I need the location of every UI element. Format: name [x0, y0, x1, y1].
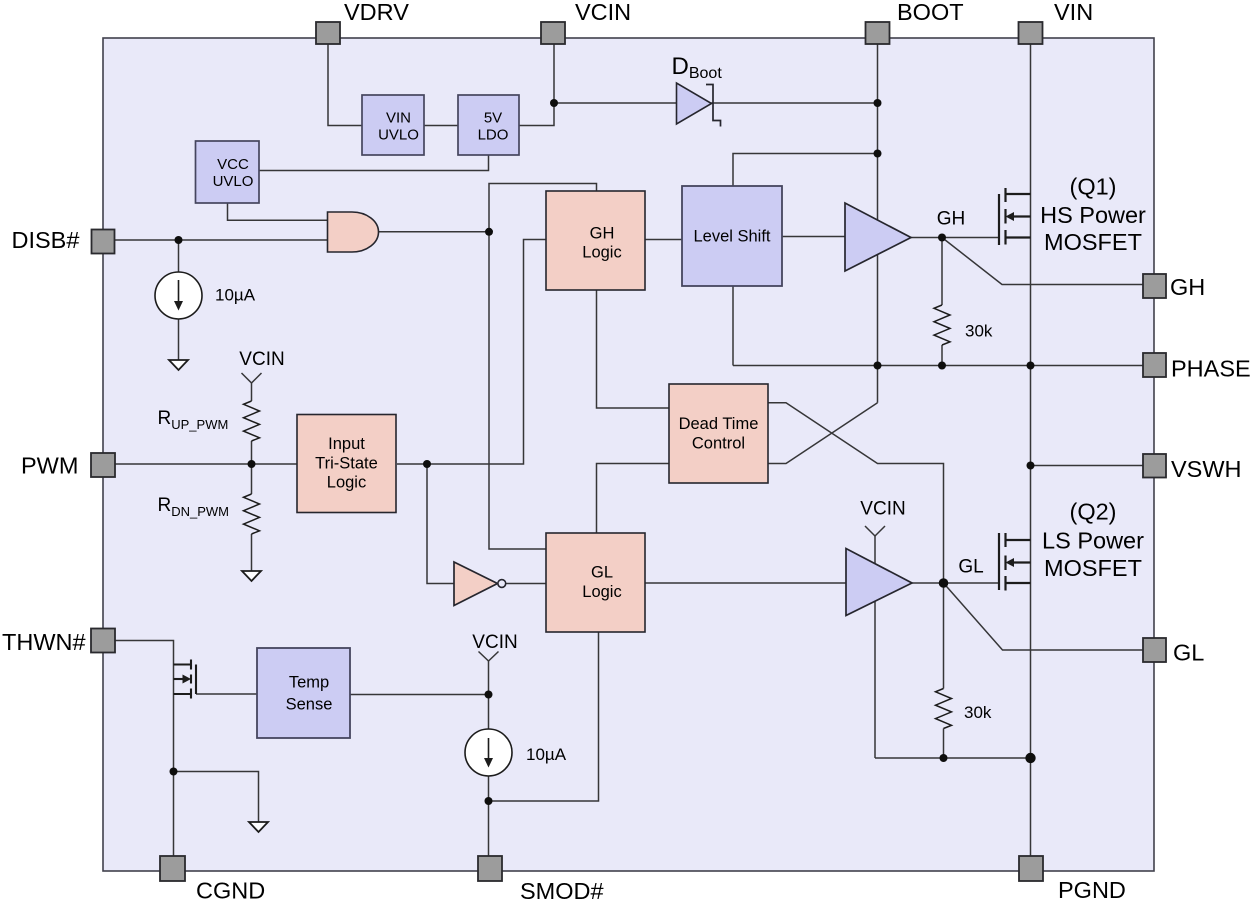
svg-text:UVLO: UVLO	[378, 127, 419, 144]
svg-text:GL: GL	[958, 557, 983, 578]
wire DISB# node to current source and ground	[178, 240, 180, 360]
svg-text:SMOD#: SMOD#	[520, 878, 604, 901]
wire PWM node to R_DN_PWM	[251, 464, 253, 494]
node PHASE-BOOT rail	[874, 362, 882, 370]
wire sense FET node to local ground	[174, 772, 259, 823]
wire BOOT node to Level Shift top	[733, 154, 878, 187]
svg-text:VCIN: VCIN	[239, 349, 284, 370]
wire VCC UVLO to AND gate upper input	[228, 203, 328, 220]
wire AND gate output	[379, 231, 490, 233]
block VCC UVLO	[196, 141, 260, 203]
ground (THWN# sense)	[249, 822, 268, 832]
svg-text:GH: GH	[937, 209, 966, 230]
wire DISB# input line to AND gate lower input	[115, 239, 328, 241]
node THWN# sense	[170, 768, 178, 776]
op-amp GH driver	[845, 203, 911, 271]
svg-text:30k: 30k	[965, 322, 993, 341]
pin DISB#	[92, 230, 115, 254]
wire BOOT rail diagonal to Dead Time Control lower output	[769, 403, 878, 464]
svg-text:30k: 30k	[964, 703, 992, 722]
svg-text:DISB#: DISB#	[12, 227, 80, 253]
node GH	[938, 234, 946, 242]
resistor R_UP_PWM	[244, 401, 260, 441]
svg-text:(Q2): (Q2)	[1070, 499, 1117, 525]
wire GL node to bottom 30k resistor	[943, 583, 945, 689]
wire Dead Time Control lower input to GL Logic top	[597, 464, 670, 534]
wire VSWH line	[1031, 465, 1144, 467]
svg-text:THWN#: THWN#	[2, 629, 86, 655]
svg-text:GH: GH	[590, 225, 615, 243]
block GH Logic	[546, 191, 645, 290]
AND gate (DISB# / VCC UVLO)	[328, 212, 379, 252]
block VIN UVLO	[362, 95, 424, 155]
pin VSWH	[1143, 454, 1166, 478]
svg-text:Level Shift: Level Shift	[693, 228, 770, 246]
pin SMOD#	[478, 856, 502, 881]
pin PHASE	[1143, 353, 1166, 377]
wire GH Logic to Level Shift	[645, 239, 682, 241]
wire Temp Sense output to SMOD# rail	[350, 694, 489, 696]
pin BOOT	[866, 22, 890, 44]
svg-text:10µA: 10µA	[526, 745, 567, 764]
transistor Q1	[999, 188, 1031, 245]
wire PWM node to inverter input	[427, 464, 454, 584]
svg-text:VSWH: VSWH	[1171, 456, 1242, 482]
resistor R_DN_PWM	[244, 494, 260, 534]
pin GL	[1143, 638, 1166, 662]
svg-text:Input: Input	[328, 435, 365, 453]
block Temp Sense	[257, 648, 350, 738]
pin GH	[1143, 274, 1166, 298]
wire VCIN stem to 10uA source and SMOD# pin	[488, 661, 490, 857]
node temp sense VCIN	[485, 691, 493, 699]
wire enable to GL Logic upper input	[489, 232, 546, 549]
wire bottom 30k resistor to bottom rail	[943, 729, 945, 759]
wire 30k resistor to PHASE rail	[941, 345, 943, 366]
node SMOD#	[485, 797, 493, 805]
svg-text:VCIN: VCIN	[575, 0, 631, 25]
wire enable to GH Logic top	[489, 184, 597, 232]
wire GH driver output to Q1 gate	[911, 237, 999, 239]
pin VIN	[1019, 22, 1043, 44]
wire GL driver output to Q2 gate	[912, 582, 999, 584]
wire SMOD# node to GL Logic bottom	[489, 632, 599, 801]
wire PHASE horizontal rail	[733, 365, 1143, 367]
svg-text:VIN: VIN	[386, 110, 411, 127]
svg-text:(Q1): (Q1)	[1070, 174, 1117, 200]
svg-text:VCIN: VCIN	[860, 499, 905, 520]
node PHASE-VIN rail	[1027, 362, 1035, 370]
pin PGND	[1019, 856, 1043, 881]
pin THWN#	[91, 629, 115, 653]
current source 10uA (DISB#)	[155, 272, 202, 319]
ground (R_DN_PWM)	[242, 571, 261, 581]
svg-text:Logic: Logic	[582, 583, 621, 601]
node tri-state output	[423, 460, 431, 468]
node BOOT-LevelShift	[874, 150, 882, 158]
junction node dots	[170, 99, 1036, 805]
svg-text:MOSFET: MOSFET	[1044, 555, 1142, 581]
node DISB#	[175, 236, 183, 244]
wire VCIN stem through GL driver to bottom rail	[874, 536, 876, 758]
svg-text:Temp: Temp	[289, 674, 329, 692]
svg-text:Logic: Logic	[582, 244, 621, 262]
inverter (PWM to GL Logic)	[454, 562, 506, 606]
block 5V LDO	[458, 95, 519, 155]
wire PWM input line	[115, 463, 297, 465]
resistor 30k (GH gate)	[934, 305, 950, 345]
svg-text:Logic: Logic	[327, 474, 366, 492]
svg-text:PHASE: PHASE	[1171, 356, 1251, 382]
wire 5V LDO to VCIN pin	[519, 44, 554, 126]
block GL Logic	[546, 533, 645, 632]
svg-text:GL: GL	[1173, 640, 1204, 666]
svg-text:VCC: VCC	[217, 156, 249, 173]
current source 10uA (SMOD#)	[465, 729, 512, 776]
IC body outline	[103, 38, 1154, 871]
wire Input Tri-State Logic output to GH Logic left input	[397, 240, 546, 465]
node LDO-VCIN	[550, 99, 558, 107]
svg-text:BOOT: BOOT	[897, 0, 964, 25]
wire LDO/VCIN node to BOOT net (through D_Boot)	[554, 102, 878, 104]
pin CGND	[160, 856, 185, 881]
node PWM divider	[248, 460, 256, 468]
pin PWM	[91, 453, 115, 477]
wire R_DN_PWM to ground	[251, 534, 253, 571]
node 30k bottom	[940, 754, 948, 762]
wire GH Logic bottom to Dead Time Control upper input	[597, 290, 670, 408]
node PGND rail	[1025, 753, 1035, 763]
wire 5V LDO bottom to VCC UVLO	[259, 156, 489, 171]
wire VIN UVLO to 5V LDO	[424, 125, 458, 127]
wire VDRV to VIN UVLO	[328, 44, 362, 126]
block Input Tri-State Logic	[297, 415, 396, 513]
pin VCIN	[541, 22, 565, 44]
ground (DISB# current source)	[169, 360, 188, 370]
block Dead Time Control	[669, 384, 768, 483]
svg-text:MOSFET: MOSFET	[1044, 229, 1142, 255]
svg-text:VCIN: VCIN	[472, 632, 517, 653]
wire GH node diagonal to GH pin	[942, 238, 1143, 285]
wire Level Shift bottom to PHASE rail	[732, 286, 734, 366]
wire VIN vertical power rail	[1030, 44, 1032, 856]
wire R_UP_PWM to PWM node	[251, 441, 253, 464]
diode D_Boot	[677, 83, 721, 127]
resistor 30k (GL gate)	[936, 689, 952, 729]
wire VCIN pull-up stem	[251, 383, 253, 401]
svg-text:PWM: PWM	[21, 453, 78, 479]
svg-text:Dead Time: Dead Time	[679, 415, 759, 433]
svg-text:PGND: PGND	[1058, 877, 1126, 901]
node VCIN arrow (pull-up divider)	[242, 373, 262, 383]
node VSWH	[1027, 462, 1035, 470]
svg-text:HS Power: HS Power	[1040, 202, 1146, 228]
transistor thermal sense FET	[174, 660, 197, 699]
wire bottom rail to PGND rail	[875, 757, 1031, 759]
node enable	[485, 228, 493, 236]
transistor Q2	[999, 533, 1031, 591]
svg-text:GH: GH	[1170, 274, 1205, 300]
svg-text:VIN: VIN	[1054, 0, 1093, 25]
wire GH node to 30k resistor top	[941, 238, 943, 306]
wire GL node diagonal to GL pin	[944, 583, 1144, 650]
op-amp GL driver	[846, 549, 912, 616]
svg-text:Tri-State: Tri-State	[315, 455, 378, 473]
svg-text:CGND: CGND	[196, 878, 265, 901]
node GL	[939, 578, 949, 588]
svg-text:UVLO: UVLO	[213, 173, 254, 190]
svg-text:5V: 5V	[484, 110, 502, 127]
node VCIN arrow (GL driver supply)	[865, 526, 885, 536]
node VCIN arrow (temp sense source)	[479, 652, 499, 662]
wire BOOT vertical rail	[877, 44, 879, 403]
svg-text:GL: GL	[591, 564, 613, 582]
svg-text:Sense: Sense	[286, 696, 333, 714]
svg-text:10µA: 10µA	[215, 286, 256, 305]
wire inverter output to GL Logic	[506, 583, 547, 585]
wire THWN# input to sense FET drain	[115, 641, 174, 857]
node PHASE-30k	[938, 362, 946, 370]
pin VDRV	[316, 22, 340, 44]
wire GL Logic output to GL driver	[645, 582, 846, 584]
svg-text:LDO: LDO	[478, 127, 509, 144]
node BOOT-DBoot	[874, 99, 882, 107]
svg-text:VDRV: VDRV	[344, 0, 409, 25]
block Level Shift	[682, 186, 782, 286]
svg-text:LS Power: LS Power	[1042, 528, 1144, 554]
wire Dead Time Control upper output crossing to GL gate rail	[769, 403, 944, 583]
wire sense FET gate to Temp Sense	[196, 693, 257, 695]
svg-text:Control: Control	[692, 435, 745, 453]
wire Level Shift to GH driver	[782, 236, 845, 238]
